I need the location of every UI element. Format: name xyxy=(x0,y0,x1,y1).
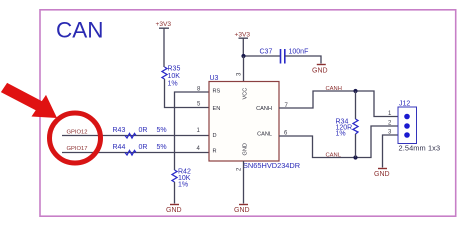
ground below U3 xyxy=(234,205,250,215)
svg-text:R: R xyxy=(213,148,217,154)
wire pin2 to ground xyxy=(243,161,245,204)
node GPIO12 wire (row D) xyxy=(62,135,209,137)
svg-text:EN: EN xyxy=(213,106,221,112)
annotation red arrow xyxy=(1,83,57,118)
svg-text:2.54mm 1x3: 2.54mm 1x3 xyxy=(399,144,441,153)
svg-text:GPIO12: GPIO12 xyxy=(67,130,88,136)
svg-text:U3: U3 xyxy=(210,75,219,82)
svg-text:GND: GND xyxy=(166,207,182,214)
svg-text:CAN: CAN xyxy=(56,18,104,43)
svg-text:CANH: CANH xyxy=(256,106,272,112)
svg-text:0R: 0R xyxy=(139,127,148,134)
svg-text:+3V3: +3V3 xyxy=(156,21,172,28)
svg-text:VCC: VCC xyxy=(243,88,249,100)
svg-text:1%: 1% xyxy=(336,131,346,138)
svg-text:5%: 5% xyxy=(157,127,167,134)
wire CANL xyxy=(279,126,407,158)
svg-text:J12: J12 xyxy=(399,101,410,108)
svg-text:0R: 0R xyxy=(139,144,148,151)
wire J12 pin3 xyxy=(383,135,408,168)
schematic frame xyxy=(40,10,456,216)
svg-text:GPIO17: GPIO17 xyxy=(67,146,88,152)
svg-text:CANL: CANL xyxy=(326,153,342,159)
svg-text:GND: GND xyxy=(234,207,250,214)
svg-text:10K: 10K xyxy=(168,73,181,80)
svg-text:RS: RS xyxy=(213,89,221,95)
annotation red circle xyxy=(50,113,101,163)
svg-text:GND: GND xyxy=(243,143,249,155)
wire R35 to EN xyxy=(165,79,210,108)
wire pin3 VCC xyxy=(243,56,245,82)
svg-text:1%: 1% xyxy=(178,182,188,189)
ground below J12 xyxy=(374,169,390,179)
wire CANH xyxy=(279,91,407,117)
power +3V3 (above C37) xyxy=(235,32,251,57)
svg-text:100nF: 100nF xyxy=(289,49,309,56)
svg-text:C37: C37 xyxy=(260,49,273,56)
resistor R43 xyxy=(113,127,167,138)
junction VCC node xyxy=(241,54,245,58)
junction CANH/R34 xyxy=(353,89,357,93)
svg-text:5%: 5% xyxy=(157,144,167,151)
svg-text:GND: GND xyxy=(312,68,328,75)
svg-text:D: D xyxy=(213,133,217,139)
wire cap to ground xyxy=(285,56,321,64)
resistor R35 xyxy=(162,66,180,88)
ground below R42 xyxy=(166,205,182,215)
IC U3 CAN transceiver SN65HVD234DR xyxy=(209,75,300,170)
node GPIO17 wire (row R) xyxy=(62,152,209,154)
resistor R34 xyxy=(336,91,359,158)
svg-text:1%: 1% xyxy=(168,81,178,88)
ground right of C37 xyxy=(312,65,328,75)
svg-text:R43: R43 xyxy=(113,127,126,134)
capacitor C37 xyxy=(260,49,309,64)
svg-text:+3V3: +3V3 xyxy=(235,32,251,39)
resistor R44 xyxy=(113,144,167,155)
wire RS to R42 pulldown (crosses EN/D/R rows) xyxy=(175,92,210,170)
junction CANL/R34 xyxy=(353,155,357,159)
wire VCC node to cap xyxy=(244,55,281,57)
svg-text:R44: R44 xyxy=(113,144,126,151)
connector J12 xyxy=(388,101,440,153)
svg-text:GND: GND xyxy=(374,171,390,178)
svg-text:CANH: CANH xyxy=(326,86,342,92)
resistor R42 xyxy=(172,169,191,204)
power +3V3 (left, above R35) xyxy=(156,21,172,67)
svg-text:SN65HVD234DR: SN65HVD234DR xyxy=(243,161,300,170)
svg-text:R35: R35 xyxy=(168,66,181,73)
svg-text:CANL: CANL xyxy=(257,131,272,137)
